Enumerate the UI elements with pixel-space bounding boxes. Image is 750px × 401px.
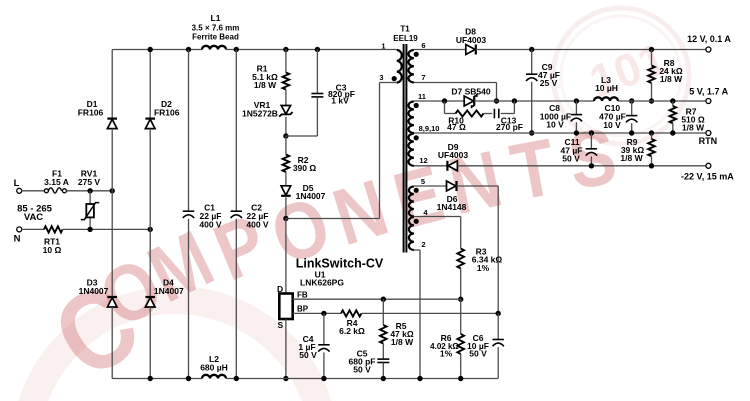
wire D1 leg middle: [111, 129, 113, 297]
svg-text:T1: T1: [400, 25, 410, 34]
node N on D2 leg: [148, 227, 153, 232]
svg-text:12: 12: [419, 156, 427, 165]
svg-text:1N5272B: 1N5272B: [242, 108, 278, 118]
wire pin11 to D7: [414, 100, 466, 102]
node snubber right: [512, 98, 517, 103]
wire BP left: [293, 312, 341, 314]
terminal 5V: [706, 99, 711, 104]
node C3 top: [315, 47, 320, 52]
node C10 bottom: [629, 130, 634, 135]
wire D9 to -22V terminal: [457, 165, 706, 167]
svg-text:10 µH: 10 µH: [595, 83, 618, 93]
node R9 bottom: [649, 163, 654, 168]
svg-text:12 V, 0.1 A: 12 V, 0.1 A: [687, 34, 731, 44]
inductor L3: [594, 97, 618, 101]
node S bottom: [283, 376, 288, 381]
wire pin3 vertical: [379, 83, 381, 219]
secondary winding 6-7: [408, 50, 413, 82]
node L1 left: [186, 47, 191, 52]
varistor RV1: [89, 191, 91, 204]
svg-text:50 V: 50 V: [353, 364, 371, 374]
svg-text:1N4007: 1N4007: [154, 286, 184, 296]
svg-text:BP: BP: [297, 304, 309, 313]
sec dot pin11: [414, 103, 419, 108]
node R8 bottom: [649, 98, 654, 103]
node C4 bottom: [321, 376, 326, 381]
wire pin4 to R3: [414, 216, 461, 218]
node R9 top: [649, 130, 654, 135]
node C8 bottom: [574, 130, 579, 135]
svg-text:N: N: [14, 234, 21, 245]
svg-text:1N4007: 1N4007: [296, 191, 326, 201]
node RV1 top: [87, 188, 92, 193]
svg-text:270 pF: 270 pF: [496, 122, 523, 132]
bias dot pin5: [414, 188, 419, 193]
svg-text:1/8 W: 1/8 W: [620, 153, 643, 163]
ic U1 LNK626PG: [279, 294, 292, 320]
svg-text:-22 V, 15 mA: -22 V, 15 mA: [681, 171, 734, 181]
snubber R10 C13: [444, 101, 446, 114]
primary dot pin3: [392, 76, 397, 81]
svg-text:5: 5: [421, 177, 425, 186]
resistor R7: [672, 101, 674, 106]
resistor R6: [457, 334, 464, 354]
svg-text:FB: FB: [297, 290, 308, 299]
node R6 bottom: [458, 376, 463, 381]
node BP D6: [496, 311, 501, 316]
wire BP right: [361, 312, 498, 314]
diode D9: [448, 161, 457, 171]
wire D5 to D node: [285, 196, 287, 219]
node D2 top: [148, 47, 153, 52]
wire pin2 drop: [414, 249, 420, 251]
wire pin7: [414, 82, 497, 84]
wire D node to pin3 drop: [286, 218, 380, 220]
svg-text:2: 2: [421, 240, 425, 249]
svg-text:47 Ω: 47 Ω: [447, 122, 466, 132]
ferrite bead L1: [202, 46, 226, 50]
capacitor C6: [497, 313, 499, 339]
node L1 right: [234, 47, 239, 52]
wire RT1 to D2 leg: [63, 228, 151, 230]
capacitor C4: [323, 313, 325, 344]
svg-text:25 V: 25 V: [540, 78, 558, 88]
wire FB: [293, 298, 461, 300]
resistor R9: [651, 133, 653, 139]
svg-text:D7 SB540: D7 SB540: [451, 87, 490, 97]
wire D2 leg lower: [149, 307, 151, 379]
svg-text:1/8 W: 1/8 W: [391, 337, 414, 347]
wire pin5 to D6: [414, 185, 447, 187]
wire L to fuse: [21, 190, 44, 192]
resistor R2: [285, 136, 287, 155]
capacitor C11: [590, 133, 592, 149]
transformer core: [403, 44, 405, 253]
svg-text:3.15 A: 3.15 A: [44, 177, 69, 187]
zener VR1: [281, 106, 290, 115]
primary winding 1-3: [397, 50, 402, 82]
svg-text:50 V: 50 V: [469, 348, 487, 358]
secondary winding 11-8910: [409, 102, 414, 134]
wire fuse to RV1 node: [66, 190, 112, 192]
fuse F1: [44, 189, 48, 193]
node C5 bottom: [381, 376, 386, 381]
svg-text:S: S: [278, 320, 284, 330]
wire D1 leg upper: [111, 50, 113, 119]
svg-text:L: L: [14, 178, 20, 189]
svg-text:1N4148: 1N4148: [437, 202, 467, 212]
secondary winding 8910-12: [409, 134, 414, 166]
node C4 top: [321, 311, 326, 316]
node C10 top: [629, 98, 634, 103]
thermistor RT1: [44, 226, 63, 232]
diode D6: [447, 181, 456, 191]
node pin7 to 5V: [494, 98, 499, 103]
resistor R8: [651, 50, 653, 66]
diode D3: [107, 296, 117, 298]
svg-text:UF4003: UF4003: [456, 35, 487, 45]
capacitor C1: [188, 50, 190, 212]
terminal N: [17, 227, 22, 232]
wire pin6 to D8: [414, 49, 466, 51]
svg-text:8,9,10: 8,9,10: [419, 124, 440, 133]
svg-text:FR106: FR106: [154, 108, 180, 118]
node R5 top: [381, 297, 386, 302]
svg-text:UF4003: UF4003: [438, 150, 469, 160]
wire bottom rail right: [226, 378, 498, 380]
wire top rail mid: [226, 49, 397, 51]
terminal 12V: [706, 47, 711, 52]
node C2 bottom: [234, 376, 239, 381]
svg-text:10 V: 10 V: [603, 120, 621, 130]
svg-text:VAC: VAC: [24, 212, 43, 223]
terminal L: [17, 188, 22, 193]
capacitor C9: [531, 50, 533, 75]
capacitor C10: [631, 101, 633, 116]
resistor R4: [341, 310, 361, 316]
svg-text:RTN: RTN: [699, 136, 718, 146]
node R7 bottom: [670, 130, 675, 135]
diode D1: [107, 117, 117, 119]
wire pin12 to D9: [414, 165, 448, 167]
svg-text:EEL19: EEL19: [393, 34, 418, 43]
svg-text:10 V: 10 V: [546, 120, 564, 130]
svg-text:1/8 W: 1/8 W: [254, 80, 277, 90]
svg-text:3.5 × 7.6 mm: 3.5 × 7.6 mm: [192, 24, 240, 33]
wire S pin: [285, 319, 287, 379]
svg-text:10 Ω: 10 Ω: [43, 245, 62, 255]
node C11 bottom: [589, 163, 594, 168]
svg-text:1 kV: 1 kV: [331, 96, 349, 106]
resistor R5: [382, 299, 384, 325]
wire L3 to 5V terminal: [618, 100, 706, 102]
terminal -22V: [706, 163, 711, 168]
diode D8: [466, 45, 475, 55]
wire RTN rail: [414, 132, 706, 134]
inductor L2: [202, 375, 226, 379]
wire top rail left: [112, 49, 202, 51]
node C9 top: [529, 47, 534, 52]
watermark faint swirl bottom-left: [25, 300, 325, 401]
node C9 bottom: [529, 130, 534, 135]
node snubber left: [442, 98, 447, 103]
diode D4: [145, 296, 155, 298]
svg-text:6: 6: [421, 41, 425, 50]
node D4 bottom: [148, 376, 153, 381]
svg-text:400 V: 400 V: [246, 219, 269, 229]
svg-text:1: 1: [381, 41, 385, 50]
resistor R3: [457, 249, 464, 269]
capacitor C3: [316, 50, 318, 94]
svg-text:1/8 W: 1/8 W: [660, 74, 683, 84]
wire D2 leg middle: [149, 129, 151, 297]
bias winding 5-4: [409, 187, 414, 217]
node C8 top: [574, 98, 579, 103]
svg-text:LinkSwitch-CV: LinkSwitch-CV: [296, 257, 384, 271]
svg-text:1N4007: 1N4007: [79, 286, 109, 296]
wire R3 to R6: [460, 299, 462, 334]
svg-text:50 V: 50 V: [562, 154, 580, 164]
svg-text:Ferrite Bead: Ferrite Bead: [192, 33, 239, 42]
svg-text:1%: 1%: [440, 348, 453, 358]
node drain junction: [283, 216, 288, 221]
node pin2 bottom: [417, 376, 422, 381]
capacitor C5: [382, 344, 384, 360]
svg-text:3: 3: [379, 73, 383, 82]
terminal RTN: [706, 131, 711, 136]
node R8 top: [649, 47, 654, 52]
sec dot w3: [414, 135, 419, 140]
wire D2 leg upper: [149, 50, 151, 119]
wire D6 to BP drop: [457, 185, 499, 187]
wire D7 to L3: [474, 100, 594, 102]
svg-text:1%: 1%: [477, 263, 490, 273]
diode D7 SB540: [464, 96, 473, 106]
wire D1 leg lower: [111, 307, 113, 379]
node L on D1 leg: [110, 188, 115, 193]
node clamp mid: [283, 133, 288, 138]
capacitor C2: [235, 50, 237, 212]
diode D2: [145, 117, 155, 119]
svg-text:5 V, 1.7 A: 5 V, 1.7 A: [689, 87, 728, 97]
sec dot pin6: [414, 52, 419, 57]
svg-text:LNK626PG: LNK626PG: [300, 278, 344, 288]
wire N to RT1: [21, 228, 44, 230]
diode D5: [281, 186, 291, 195]
wire D8 to 12V terminal: [476, 49, 706, 51]
wire VR1 to node: [285, 117, 287, 136]
bias dot w5: [414, 219, 419, 224]
wire clamp to C3: [286, 135, 318, 137]
node RV1 bottom: [87, 227, 92, 232]
svg-text:1/8 W: 1/8 W: [682, 123, 705, 133]
bias winding 4-2: [409, 217, 414, 250]
watermark ring top-right: [553, 8, 689, 144]
svg-text:50 V: 50 V: [299, 350, 317, 360]
svg-text:D: D: [277, 284, 283, 294]
capacitor C8: [575, 101, 577, 115]
svg-text:11: 11: [418, 92, 426, 101]
svg-text:FR106: FR106: [78, 108, 104, 118]
svg-text:275 V: 275 V: [78, 177, 101, 187]
node R7 top: [670, 98, 675, 103]
wire pin3 horizontal: [380, 82, 397, 84]
svg-text:7: 7: [421, 73, 425, 82]
wire D node to U1: [285, 219, 287, 294]
node C11 top: [589, 130, 594, 135]
svg-text:400 V: 400 V: [199, 219, 222, 229]
node C1 bottom: [186, 376, 191, 381]
svg-text:390 Ω: 390 Ω: [293, 163, 317, 173]
svg-text:L1: L1: [211, 13, 221, 23]
resistor R1: [285, 50, 287, 73]
node R3 FB: [458, 297, 463, 302]
wire bottom rail left: [112, 378, 202, 380]
svg-text:6.2 kΩ: 6.2 kΩ: [339, 326, 365, 336]
svg-text:680 µH: 680 µH: [200, 363, 228, 373]
node R1 top: [283, 47, 288, 52]
